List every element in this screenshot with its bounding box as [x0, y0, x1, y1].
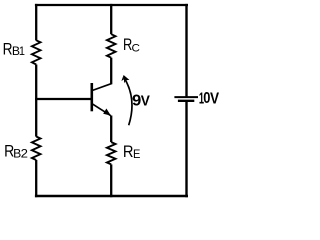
wire right branch upper segment	[185, 4, 187, 97]
label 9V	[132, 93, 150, 110]
label RC	[123, 37, 140, 55]
wire left branch lower segment	[35, 160, 37, 197]
wire left branch upper segment	[35, 4, 37, 41]
svg-text:E: E	[133, 149, 141, 161]
battery V1 negative plate	[178, 100, 194, 102]
wire base	[35, 98, 91, 100]
transistor Q1 emitter diagonal	[92, 104, 111, 116]
svg-text:C: C	[131, 43, 139, 55]
resistor RC	[107, 34, 116, 58]
label 10V	[199, 89, 219, 108]
resistor RB2	[32, 137, 41, 161]
label RB2	[4, 142, 28, 160]
label RB1	[3, 40, 25, 59]
wire bottom rail	[35, 195, 188, 197]
svg-text:V: V	[141, 93, 151, 110]
annotation 9V arc arrow	[124, 78, 132, 125]
annotation 9V arrowhead	[121, 75, 129, 83]
transistor Q1 base bar	[91, 83, 94, 111]
wire left branch middle segment	[35, 65, 37, 137]
resistor RE	[107, 142, 116, 164]
wire top rail	[35, 4, 188, 6]
wire collector lead	[110, 58, 112, 85]
transistor Q1 emitter arrowhead	[103, 109, 111, 116]
wire middle branch top segment	[110, 4, 112, 34]
wire emitter lead	[110, 116, 112, 143]
wire middle branch bottom segment	[110, 164, 112, 197]
svg-text:2: 2	[21, 147, 28, 160]
svg-text:R: R	[123, 143, 134, 161]
transistor Q1 collector diagonal	[92, 84, 111, 91]
resistor RB1	[32, 40, 41, 64]
label RE	[123, 143, 141, 161]
wire right branch lower segment	[185, 101, 187, 197]
svg-text:1: 1	[19, 44, 25, 58]
svg-text:V: V	[210, 91, 219, 108]
battery V1 positive plate	[174, 96, 198, 98]
